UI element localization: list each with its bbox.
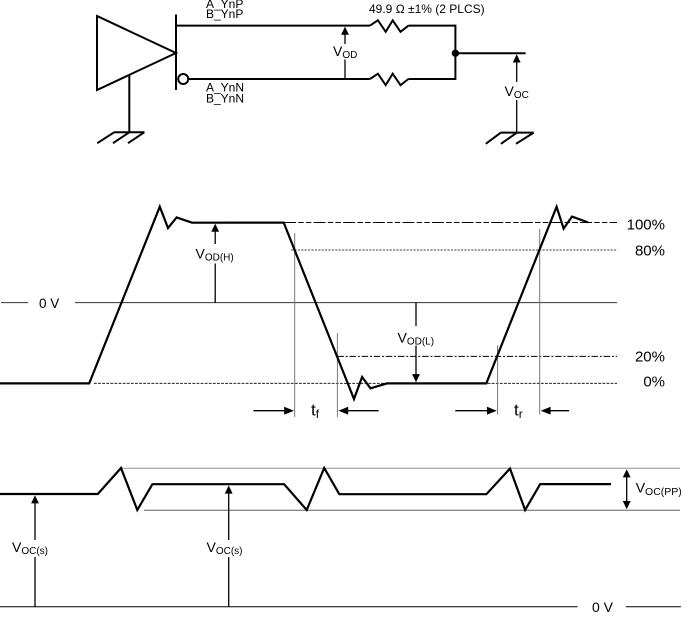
- wire: positive output (top): [176, 25, 370, 27]
- svg-text:VOD(H): VOD(H): [196, 246, 234, 264]
- VOC arrow (center tap to ground): [513, 54, 521, 132]
- VOC(PP) double arrow: [623, 469, 631, 509]
- VOC(PP) top reference line: [121, 467, 680, 469]
- svg-text:0 V: 0 V: [39, 296, 59, 311]
- tr right arrow: [541, 407, 569, 415]
- ground (driver): [97, 75, 144, 144]
- output bar at driver: [175, 15, 177, 91]
- svg-text:VOC: VOC: [505, 83, 529, 101]
- wire: bottom resistor to right vertical: [408, 78, 455, 80]
- wire: center tap to VOC measurement: [455, 52, 525, 54]
- VOD arrow (between outputs): [341, 27, 349, 78]
- resistor R1 (top 49.9 ohm): [370, 20, 408, 32]
- common-mode output waveform VOC: [0, 468, 611, 510]
- wire: negative output (bottom): [189, 78, 370, 80]
- 20% level line (dash-dot): [337, 355, 617, 357]
- 0% level line (dash-dot-dot): [94, 382, 617, 384]
- svg-text:VOC(PP): VOC(PP): [636, 480, 682, 499]
- 100% level line (dash-dot): [284, 222, 617, 224]
- tr left arrow: [455, 407, 497, 415]
- wire: right vertical joining resistors: [454, 25, 456, 80]
- svg-text:VOD(L): VOD(L): [398, 330, 435, 348]
- svg-text:VOD: VOD: [333, 43, 357, 61]
- 80% level line (dotted): [291, 249, 617, 251]
- VOD(L) arrow: [412, 303, 420, 383]
- svg-text:49.9 Ω ±1% (2 PLCS): 49.9 Ω ±1% (2 PLCS): [369, 2, 485, 16]
- inversion bubble on negative output: [178, 74, 188, 84]
- node: center tap junction dot: [452, 50, 459, 57]
- svg-text:80%: 80%: [635, 242, 665, 259]
- svg-text:0%: 0%: [643, 374, 665, 391]
- tr marker line (20% crossing, rising): [497, 345, 499, 414]
- tf right arrow: [338, 407, 378, 415]
- svg-text:100%: 100%: [627, 216, 665, 233]
- svg-text:B_YnN: B_YnN: [206, 92, 244, 106]
- VOC(s) arrow 2: [225, 485, 233, 606]
- 0 V axis line (middle waveform), main: [75, 302, 617, 304]
- resistor R2 (bottom 49.9 ohm): [370, 74, 408, 86]
- wire: top resistor to right vertical: [408, 25, 455, 27]
- VOC(PP) bottom reference line: [144, 509, 680, 511]
- ground (VOC reference): [486, 133, 534, 144]
- driver U1 (buffer triangle): [97, 16, 176, 90]
- svg-text:B_YnP: B_YnP: [206, 7, 243, 21]
- svg-text:20%: 20%: [635, 349, 665, 366]
- svg-text:tr: tr: [514, 401, 523, 422]
- tf marker line (80% crossing, falling): [294, 233, 296, 417]
- tf marker line (20% crossing, falling): [336, 333, 338, 417]
- VOD(H) arrow: [211, 224, 219, 303]
- differential output waveform VOD: [0, 207, 588, 399]
- svg-text:0 V: 0 V: [592, 599, 614, 615]
- tf left arrow: [254, 407, 295, 415]
- tr marker line (80% crossing, rising): [539, 229, 541, 415]
- 0 V axis line (middle waveform), left stub: [1, 302, 28, 304]
- 0 V baseline (bottom waveform): [0, 606, 578, 608]
- VOC(s) arrow 1: [31, 495, 39, 607]
- 0 V baseline right stub: [626, 606, 681, 608]
- svg-text:tf: tf: [311, 401, 320, 422]
- svg-text:VOC(s): VOC(s): [207, 539, 243, 557]
- svg-text:VOC(s): VOC(s): [12, 539, 48, 557]
